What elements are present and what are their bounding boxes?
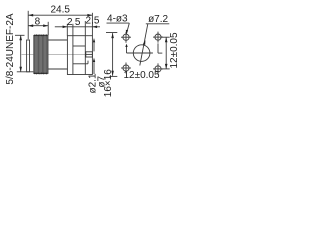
svg-text:12±0.05: 12±0.05 bbox=[123, 70, 160, 81]
front washer face (cap) bbox=[27, 40, 30, 72]
dimension 8 dim line bbox=[28, 24, 48, 27]
mounting hole top-left bbox=[121, 32, 131, 43]
front view 16x16 dim line bbox=[106, 33, 117, 77]
extension line x=85.3 bbox=[84, 21, 86, 36]
svg-text:12±0.05: 12±0.05 bbox=[169, 32, 180, 69]
extension line x=67.3 bbox=[66, 24, 68, 36]
thread crest bumps top bbox=[34, 34, 48, 36]
center circle ø7.2 bbox=[127, 45, 163, 62]
middle cylinder (neck) bbox=[48, 40, 67, 69]
svg-text:16×16: 16×16 bbox=[103, 69, 114, 98]
dimension 24.5 dim line bbox=[28, 14, 92, 17]
extension line x=72.9 bbox=[72, 24, 74, 36]
center pin ø2.1 box bbox=[86, 52, 93, 57]
svg-text:2.5: 2.5 bbox=[86, 16, 100, 27]
mounting hole bottom-right bbox=[153, 63, 163, 74]
centerline / axis bbox=[22, 54, 86, 56]
extension line left end x=28.2 bbox=[27, 11, 29, 39]
right dim 12±0.05 bbox=[161, 37, 170, 69]
svg-text:8: 8 bbox=[35, 17, 41, 28]
hole column arrows at mid line bbox=[125, 43, 158, 53]
leader line ø7.2 bbox=[140, 24, 148, 66]
threaded barrel body outline bbox=[34, 35, 48, 73]
chained dim line 2,5,2.5 bbox=[55, 26, 100, 29]
pin dimension arrows right of body bbox=[93, 38, 95, 74]
underline ø7.2 bbox=[146, 23, 170, 25]
mounting hole top-right bbox=[153, 32, 163, 43]
thread crest bumps bottom bbox=[34, 73, 48, 75]
svg-text:2: 2 bbox=[67, 17, 73, 28]
thread hatch bbox=[34, 34, 48, 74]
extension line x=92.4 bbox=[91, 13, 93, 36]
svg-text:5/8-24UNEF-2A: 5/8-24UNEF-2A bbox=[5, 13, 16, 84]
internal bore lines (ø7) bbox=[73, 46, 88, 64]
svg-text:24.5: 24.5 bbox=[50, 5, 70, 16]
extension line thread end x=48.2 bbox=[47, 22, 49, 35]
rear body outline bbox=[67, 36, 92, 75]
mounting hole bottom-left bbox=[121, 63, 131, 74]
underline 4-ø3 bbox=[107, 22, 130, 24]
leader line 4-ø3 bbox=[126, 23, 130, 34]
svg-text:5: 5 bbox=[75, 17, 81, 28]
thread diameter dim line 5/8-24UNEF-2A bbox=[15, 35, 34, 72]
